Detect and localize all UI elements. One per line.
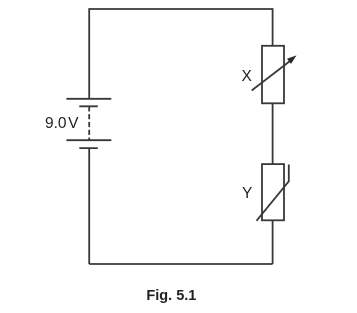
variable resistor X arrow shaft: [252, 61, 291, 91]
wire top: [89, 9, 272, 99]
variable resistor X arrowhead: [287, 55, 297, 64]
battery B1 cell2 long plate: [66, 139, 111, 141]
wire right middle: [272, 103, 274, 164]
wire right bottom: [272, 220, 274, 264]
thermistor Y line: [257, 165, 289, 221]
thermistor Y body: [262, 164, 284, 220]
svg-text:Fig. 5.1: Fig. 5.1: [146, 288, 196, 304]
svg-text:Y: Y: [242, 185, 252, 202]
variable resistor X body: [262, 46, 284, 104]
wire bottom: [89, 263, 272, 265]
svg-text:9.0V: 9.0V: [45, 115, 79, 132]
battery B1 dashed link: [88, 106, 90, 140]
wire left lower: [88, 148, 90, 264]
battery B1 cell1 short plate: [79, 105, 98, 107]
battery B1 cell1 long plate: [66, 98, 111, 100]
svg-text:X: X: [242, 68, 253, 85]
battery B1 cell2 short plate: [79, 147, 98, 149]
